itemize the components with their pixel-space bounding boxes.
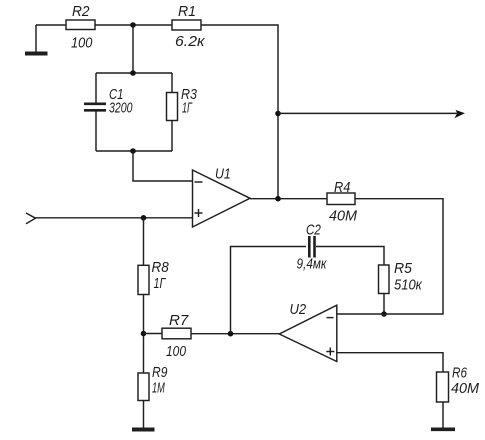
svg-text:R7: R7: [169, 313, 189, 329]
wire U2 plus to R6: [337, 353, 443, 372]
svg-text:U2: U2: [290, 302, 307, 318]
node output junction: [275, 111, 281, 117]
node junction top: [130, 22, 136, 28]
svg-text:R2: R2: [72, 4, 90, 20]
svg-text:6.2к: 6.2к: [175, 34, 206, 50]
wire: [143, 218, 145, 265]
node junction feedback: [228, 331, 234, 337]
resistor R8: [138, 260, 169, 295]
wire: [36, 24, 66, 26]
svg-text:R9: R9: [152, 365, 167, 381]
wire: [143, 295, 145, 374]
svg-text:3200: 3200: [109, 101, 133, 117]
wire: [201, 25, 278, 199]
resistor R2: [66, 4, 95, 52]
wire: [132, 25, 134, 73]
node junction R5 bottom: [381, 311, 387, 317]
resistor R4: [327, 180, 358, 225]
svg-text:100: 100: [166, 344, 186, 360]
resistor R1: [172, 4, 206, 50]
wire feedback up: [231, 247, 307, 334]
ground: [25, 25, 48, 54]
capacitor C1: [84, 73, 133, 151]
capacitor C2: [297, 223, 328, 273]
svg-text:40M: 40M: [451, 381, 480, 397]
wire R4 to U2 minus: [337, 199, 443, 314]
wire C2 to R5: [316, 247, 384, 266]
ground: [132, 401, 155, 430]
resistor R9: [138, 365, 167, 401]
wire R7 to U2 output: [191, 333, 280, 335]
svg-text:100: 100: [71, 36, 92, 52]
svg-text:U1: U1: [215, 167, 231, 183]
svg-text:R8: R8: [152, 260, 169, 276]
op-amp U1: [193, 167, 251, 228]
svg-text:R5: R5: [394, 261, 413, 277]
node junction input: [141, 215, 147, 221]
svg-text:R1: R1: [178, 4, 196, 20]
node junction R7: [141, 331, 147, 337]
svg-text:510к: 510к: [394, 278, 423, 294]
wire U1 output to R4: [250, 198, 327, 200]
op-amp U2: [279, 302, 337, 362]
wire top rail C1R3: [96, 72, 172, 74]
node junction: [130, 148, 136, 154]
svg-text:R6: R6: [452, 366, 468, 382]
wire input to U1 +: [36, 217, 193, 219]
svg-text:C2: C2: [306, 223, 321, 239]
svg-text:R4: R4: [334, 180, 350, 196]
resistor R3: [167, 73, 198, 151]
node junction U1 out: [275, 196, 281, 202]
node junction: [130, 70, 136, 76]
svg-text:1Г: 1Г: [154, 276, 167, 292]
wire output with arrow: [278, 110, 465, 118]
resistor R7: [144, 313, 192, 360]
resistor R5: [379, 261, 423, 294]
resistor R6: [437, 366, 480, 403]
svg-text:1Г: 1Г: [182, 101, 193, 117]
svg-text:40M: 40M: [329, 209, 358, 225]
input terminal: [26, 213, 36, 224]
wire bottom rail C1R3: [96, 150, 172, 152]
ground: [431, 402, 455, 429]
svg-text:1M: 1M: [152, 381, 165, 397]
wire to U1 inverting input: [133, 151, 192, 181]
wire: [95, 24, 172, 26]
svg-text:9,4мк: 9,4мк: [297, 257, 328, 273]
wire R5 to minus line: [383, 294, 385, 315]
